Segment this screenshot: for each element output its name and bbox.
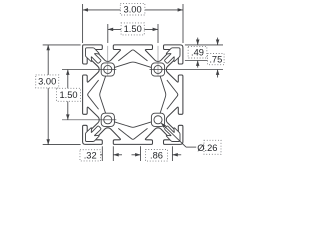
dim .86 right shaft bbox=[172, 154, 181, 156]
dim .75 upper arrow (down) bbox=[216, 40, 220, 45]
right face middle void bbox=[167, 80, 178, 109]
dim .86 left shaft bbox=[132, 154, 141, 156]
top-right hole center mark bbox=[157, 46, 159, 76]
dim 3.00 top extension lines bbox=[82, 4, 84, 43]
top-left corner void bbox=[86, 48, 101, 63]
svg-text:.49: .49 bbox=[191, 48, 204, 58]
bottom-left corner void bbox=[86, 126, 101, 141]
dim 1.50 top right arrow bbox=[153, 28, 158, 32]
leader arrowhead at hole bbox=[161, 123, 166, 128]
dim 1.50 left bottom arrow bbox=[66, 114, 70, 119]
dim 1.50 left top arrow bbox=[66, 70, 70, 75]
top-left hole (diam .26) bbox=[104, 65, 112, 73]
left face middle void bbox=[88, 80, 99, 109]
label 3.00 top bbox=[120, 3, 145, 15]
dim .75 upper stub bbox=[217, 38, 219, 45]
label 1.50 top bbox=[121, 23, 144, 35]
svg-text:1.50: 1.50 bbox=[59, 90, 77, 100]
svg-text:1.50: 1.50 bbox=[124, 24, 142, 34]
dim .75 lower stub bbox=[217, 70, 219, 78]
dim 3.00 left top arrow bbox=[46, 45, 50, 50]
bottom face middle void bbox=[118, 128, 147, 139]
dim 1.50 top left arrow bbox=[108, 28, 113, 32]
dim .86 left arrow (right) bbox=[135, 153, 140, 157]
dim .49 lower stub bbox=[197, 61, 199, 68]
top-right hole (diam .26) bbox=[154, 65, 162, 73]
dim .32 right arrow (left) bbox=[113, 153, 118, 157]
label .32 bbox=[80, 150, 101, 161]
dim .86 bottom extension lines bbox=[140, 146, 142, 161]
bottom-right boss bbox=[151, 113, 164, 126]
dim .32 right shaft bbox=[113, 154, 122, 156]
dim .32 bottom extension lines (slot opening) bbox=[101, 146, 103, 161]
top-right corner void bbox=[165, 48, 180, 63]
dim .49 right extension lines bbox=[185, 44, 223, 46]
dim 3.00 top left arrow bbox=[83, 8, 88, 12]
label .49 bbox=[188, 47, 207, 58]
svg-text:3.00: 3.00 bbox=[38, 77, 56, 87]
dim .75 lower arrow (up) bbox=[216, 70, 220, 75]
bottom-right corner void bbox=[165, 126, 180, 141]
bottom-left hole (diam .26) bbox=[104, 116, 112, 124]
dim 3.00 left extension lines bbox=[43, 44, 81, 46]
top-right boss bbox=[151, 63, 164, 76]
bottom-right hole (diam .26) bbox=[154, 116, 162, 124]
dim .49 upper stub bbox=[197, 38, 199, 45]
central cavity bbox=[100, 62, 166, 127]
dim .32 left arrow (right) bbox=[97, 153, 102, 157]
dim 1.50 top extension lines bbox=[107, 24, 109, 43]
dim 1.50 top dimension line bbox=[108, 28, 158, 30]
dim .86 right arrow (left) bbox=[172, 153, 177, 157]
dim .49 lower arrow (up) bbox=[196, 61, 200, 66]
bottom-left boss bbox=[101, 113, 114, 126]
extrusion profile outer boundary with eight T-slots bbox=[83, 45, 183, 144]
label 3.00 left bbox=[36, 75, 59, 88]
dim 3.00 left bottom arrow bbox=[46, 139, 50, 144]
svg-text:.75: .75 bbox=[209, 54, 222, 64]
label diam .26 bbox=[204, 140, 221, 154]
svg-text:.32: .32 bbox=[84, 151, 97, 161]
dim 1.50 left dimension line bbox=[67, 70, 69, 120]
svg-text:3.00: 3.00 bbox=[124, 5, 142, 15]
svg-text:Ø.26: Ø.26 bbox=[197, 143, 217, 153]
svg-text:.86: .86 bbox=[150, 151, 163, 161]
label .86 bbox=[146, 150, 168, 162]
dim 3.00 top dimension line bbox=[83, 9, 183, 11]
top-left hole center mark bbox=[107, 46, 109, 76]
dim .49 upper arrow (down) bbox=[196, 40, 200, 45]
dim .75 right extension line (hole center row) bbox=[150, 69, 224, 71]
label 1.50 left bbox=[57, 88, 81, 101]
dim .32 left shaft bbox=[94, 154, 102, 156]
label .75 bbox=[208, 54, 225, 65]
dim 1.50 left extension lines (hole center rows) bbox=[62, 69, 116, 71]
top-left boss bbox=[101, 63, 114, 76]
top face middle void bbox=[118, 50, 147, 61]
dim 3.00 left dimension line bbox=[47, 45, 49, 145]
dim 3.00 top right arrow bbox=[178, 8, 183, 12]
